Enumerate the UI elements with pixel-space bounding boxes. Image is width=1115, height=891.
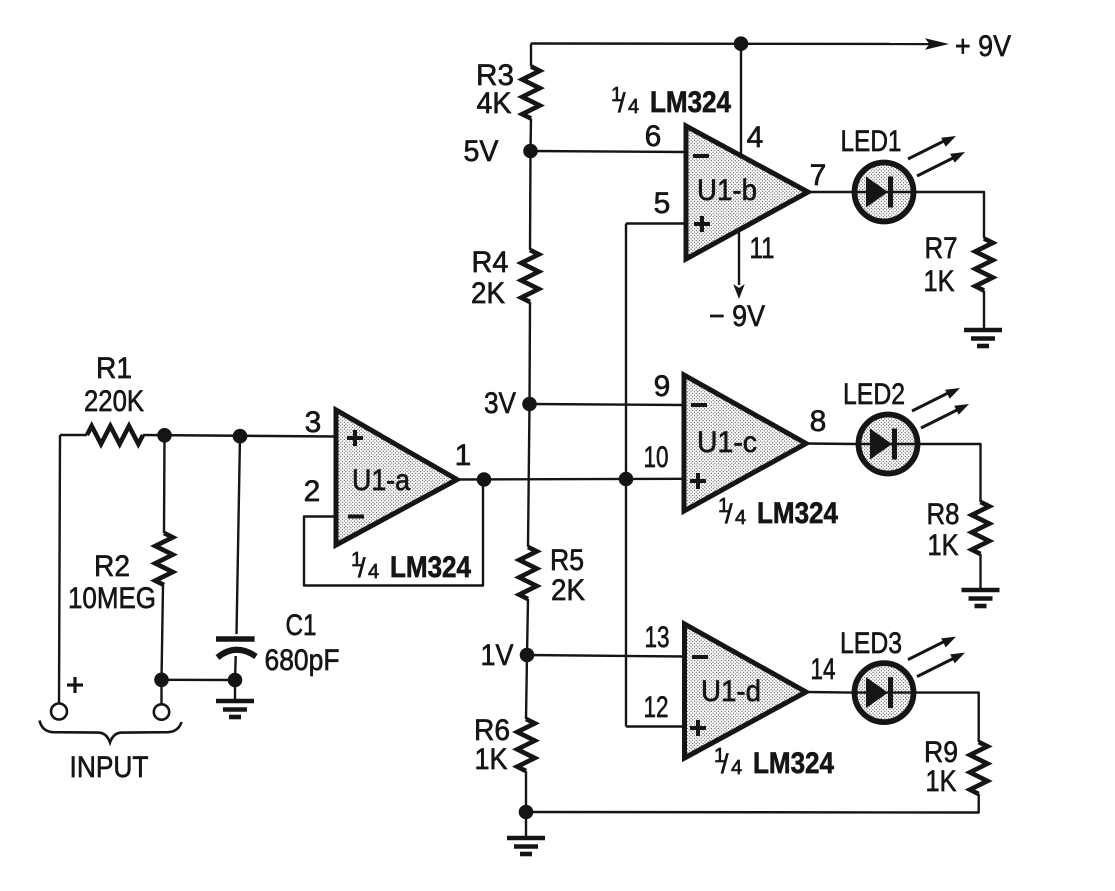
wire LED2 to R8 — [920, 444, 981, 502]
wire bus vertical — [625, 224, 627, 727]
svg-text:4: 4 — [747, 121, 764, 154]
svg-text:2K: 2K — [551, 574, 585, 607]
node bus junction — [619, 472, 634, 487]
wire R2 branch — [163, 435, 166, 533]
resistor R1 — [87, 426, 143, 444]
wire R6 to ground node — [525, 771, 527, 812]
resistor R9 — [970, 742, 988, 794]
svg-text:3: 3 — [305, 406, 322, 439]
wire pin 4 supply — [740, 44, 742, 156]
ground under R6 — [507, 838, 545, 854]
svg-text:R7: R7 — [925, 232, 958, 265]
wire LED3 to R9 — [916, 693, 979, 742]
svg-text:/: / — [618, 88, 626, 118]
wire U1-c output — [806, 442, 856, 445]
svg-text:9: 9 — [654, 370, 671, 403]
wire R2 to lower junction — [162, 585, 164, 680]
wire C1 node to ground — [234, 680, 236, 699]
wire R9 to bottom return — [526, 794, 979, 813]
U1-a minus input mark — [348, 515, 364, 519]
U1-b minus input mark — [693, 154, 709, 158]
resistor R7 — [975, 239, 993, 291]
wire to ground — [525, 812, 527, 836]
resistor R2 — [155, 533, 173, 585]
svg-text:680pF: 680pF — [265, 644, 340, 677]
resistor R8 — [972, 502, 990, 554]
svg-text:LM324: LM324 — [650, 86, 731, 119]
svg-text:5: 5 — [654, 187, 671, 220]
wire bus to pin 12 — [626, 725, 685, 727]
node R1/R2 junction — [157, 428, 172, 443]
node 3V — [522, 397, 537, 412]
svg-text:U1-a: U1-a — [352, 464, 410, 497]
svg-text:4K: 4K — [477, 87, 512, 120]
svg-text:C1: C1 — [286, 609, 317, 642]
svg-text:R5: R5 — [550, 544, 584, 577]
wire R2 node to C1 node — [162, 679, 236, 682]
svg-text:10MEG: 10MEG — [68, 582, 156, 615]
ground under C1 — [216, 701, 254, 717]
svg-text:− 9V: − 9V — [709, 300, 765, 333]
wire 1V to pin 13 — [527, 655, 685, 657]
wire R4 to 3V node — [528, 302, 531, 404]
-9V arrow — [733, 284, 745, 299]
svg-text:R2: R2 — [94, 550, 130, 583]
input terminal - circle — [154, 704, 169, 719]
svg-text:7: 7 — [810, 159, 827, 192]
capacitor C1 — [216, 639, 256, 658]
svg-text:3V: 3V — [484, 387, 516, 420]
svg-text:2K: 2K — [471, 277, 505, 310]
node R2 bottom junction — [154, 673, 169, 688]
wire LED1 to R7 — [916, 192, 984, 239]
wire U1-d output — [806, 691, 852, 694]
svg-text:+ 9V: + 9V — [955, 30, 1011, 63]
LED LED3 — [855, 663, 914, 722]
svg-text:4: 4 — [731, 757, 742, 779]
ground under R8 — [962, 590, 1000, 606]
junction top rail / pin 4 — [734, 36, 749, 51]
input terminal + circle — [51, 704, 67, 720]
wire R1 to pin 3 — [143, 435, 336, 437]
svg-text:U1-c: U1-c — [697, 426, 757, 459]
wire 3V node to R5 — [528, 404, 530, 547]
wire bus to pin 5 — [626, 222, 686, 224]
U1-c 1/4 LM324 label — [718, 495, 838, 530]
node 5V — [523, 144, 538, 159]
U1-d minus input mark — [692, 655, 708, 659]
wire U1-a output — [457, 478, 684, 481]
resistor R5 — [519, 547, 537, 599]
U1-d plus input mark — [690, 720, 706, 736]
plus sign at input — [67, 677, 83, 693]
wire C1 branch — [237, 436, 241, 634]
svg-text:LM324: LM324 — [753, 747, 834, 780]
wire input left vertical — [59, 435, 60, 704]
svg-text:6: 6 — [645, 120, 662, 153]
svg-text:INPUT: INPUT — [70, 751, 149, 784]
U1-a 1/4 LM324 label — [351, 549, 471, 584]
LED2 light arrows — [912, 388, 969, 428]
+9V supply arrow — [925, 38, 949, 50]
svg-text:4: 4 — [628, 96, 639, 118]
svg-text:14: 14 — [811, 653, 836, 686]
U1-d 1/4 LM324 label — [714, 745, 834, 780]
svg-text:4: 4 — [368, 561, 379, 583]
svg-text:/: / — [725, 499, 733, 529]
wire R3 to 5V node — [529, 119, 532, 152]
svg-text:220K: 220K — [84, 385, 144, 418]
wire 1V node to R6 — [526, 655, 527, 719]
svg-text:4: 4 — [735, 507, 746, 529]
op-amp U1-c — [684, 375, 806, 511]
svg-text:1K: 1K — [475, 743, 508, 776]
op-amp U1-b — [686, 126, 808, 259]
ground under R7 — [964, 330, 1002, 346]
op-amp U1-d — [685, 624, 807, 758]
svg-text:8: 8 — [810, 405, 827, 438]
wire left to R1 — [60, 434, 87, 436]
op-amp U1-a — [336, 410, 457, 545]
LED LED2 — [859, 415, 918, 474]
node C1 top junction — [233, 429, 248, 444]
wire U1-b output — [808, 191, 852, 193]
U1-a plus input mark — [347, 430, 363, 446]
svg-text:1K: 1K — [928, 529, 959, 562]
wire junction to input terminal — [160, 680, 162, 704]
svg-text:LED2: LED2 — [843, 378, 905, 411]
wire C1 to junction — [234, 656, 237, 680]
node ladder ground — [519, 805, 534, 820]
wire 5V node to R4 — [529, 151, 532, 250]
wire +9V rail — [531, 42, 936, 45]
node 1V — [520, 648, 535, 663]
LED LED1 — [855, 163, 914, 222]
LED1 light arrows — [908, 136, 965, 176]
wire R8 to ground — [979, 554, 981, 588]
svg-text:R1: R1 — [96, 352, 132, 385]
input brace — [40, 721, 182, 743]
svg-text:2: 2 — [304, 475, 321, 508]
svg-text:1K: 1K — [926, 765, 957, 798]
resistor R4 — [521, 250, 539, 302]
svg-text:1K: 1K — [924, 265, 955, 298]
wire 5V to pin 6 — [531, 151, 687, 152]
U1-b 1/4 LM324 label — [611, 84, 731, 119]
wire R7 to ground — [983, 291, 985, 329]
svg-text:/: / — [721, 749, 729, 779]
svg-text:/: / — [358, 553, 366, 583]
svg-text:R8: R8 — [927, 498, 960, 531]
svg-text:R4: R4 — [472, 246, 509, 279]
wire R5 to 1V node — [527, 599, 528, 655]
svg-text:1: 1 — [455, 439, 472, 472]
svg-text:LM324: LM324 — [390, 551, 471, 584]
svg-text:U1-d: U1-d — [701, 675, 761, 708]
svg-text:12: 12 — [644, 691, 669, 724]
svg-text:LM324: LM324 — [757, 497, 838, 530]
svg-text:1V: 1V — [481, 639, 514, 672]
svg-text:5V: 5V — [464, 135, 499, 168]
node C1 bottom junction — [228, 673, 243, 688]
svg-text:10: 10 — [644, 441, 669, 474]
U1-c plus input mark — [690, 473, 706, 489]
wire rail to R3 — [530, 44, 532, 67]
LED3 light arrows — [908, 637, 965, 677]
resistor R6 — [517, 719, 535, 771]
svg-text:13: 13 — [645, 621, 670, 654]
svg-text:LED3: LED3 — [840, 627, 902, 660]
svg-text:11: 11 — [750, 232, 775, 265]
node 1 output — [477, 472, 492, 487]
svg-text:U1-b: U1-b — [697, 174, 757, 207]
svg-text:LED1: LED1 — [841, 125, 902, 158]
wire 3V to pin 9 — [530, 404, 685, 405]
U1-c minus input mark — [691, 403, 707, 407]
wire pin 2 feedback — [304, 480, 483, 586]
wire pin 11 to -9V — [738, 229, 740, 285]
U1-b plus input mark — [694, 216, 710, 232]
resistor R3 — [522, 67, 540, 119]
